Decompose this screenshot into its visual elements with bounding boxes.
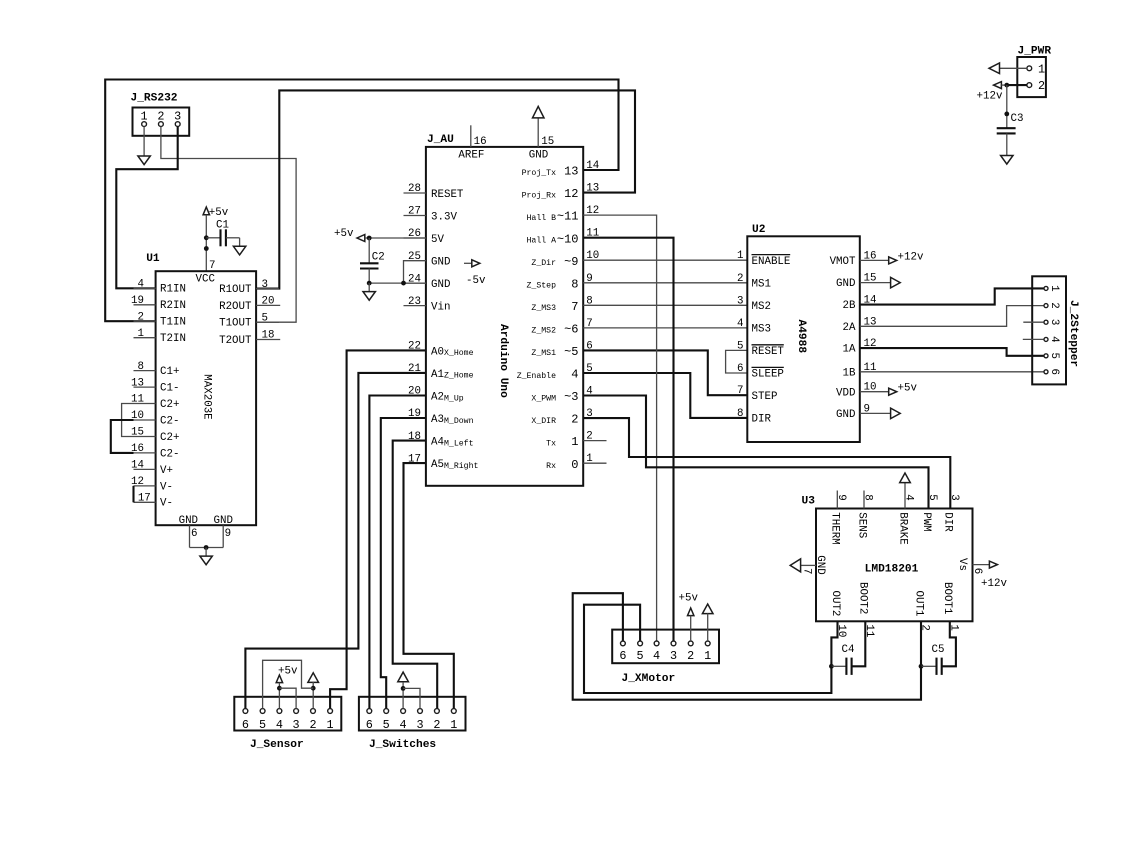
J_Sensor pin 5: [259, 709, 266, 733]
power flag +5v (U1 VCC): [203, 207, 229, 219]
svg-text:Vs: Vs: [956, 558, 968, 571]
J_AU pin 24 GND: [404, 273, 451, 291]
junction (C1 top): [204, 235, 209, 240]
svg-text:M_Down: M_Down: [444, 417, 474, 426]
wire U2 1B to J_2Stepper pin 6: [860, 371, 1044, 373]
wire U1 T1IN to Arduino pin 14 (Proj_Tx): [105, 80, 618, 322]
svg-text:GND: GND: [814, 555, 826, 574]
power flag +5v (Arduino 5V): [334, 228, 369, 242]
U2 pin 1 ENABLE: [737, 250, 790, 268]
svg-text:28: 28: [408, 183, 421, 195]
wire U2 RESET to SLEEP loop: [726, 350, 748, 373]
wire Z_MS2 to U2 MS3: [583, 327, 747, 329]
svg-text:4: 4: [903, 494, 915, 500]
U1 pin 12 V-: [131, 476, 173, 493]
power flag +12v (J_PWR pin 2): [977, 82, 1027, 103]
wire J_Switches pin 4 to pin 3: [403, 688, 420, 708]
J_Switches pin 1: [450, 709, 457, 733]
J_AU pin 1 Rx stub: [583, 462, 606, 464]
power arrow (J_PWR pin 1): [989, 63, 1027, 74]
wire U3 BOOT1 to C5: [942, 621, 956, 666]
J_Sensor pin 4: [276, 709, 283, 733]
U3 pin 9 THERM: [829, 491, 847, 545]
svg-text:12: 12: [564, 187, 578, 201]
svg-text:C2-: C2-: [160, 448, 179, 460]
wire GND24 to C2: [369, 282, 426, 284]
U1 pin 3 R1OUT: [219, 279, 279, 296]
svg-text:1: 1: [141, 110, 148, 124]
J_2Stepper pin 3 stub: [1023, 321, 1043, 323]
U1 pin 4 R1IN: [134, 279, 186, 296]
wire J_RS232 pin3 to U1 R1IN: [116, 127, 177, 289]
svg-text:Tx: Tx: [546, 439, 556, 448]
power arrow (U3 BRAKE): [900, 473, 911, 491]
svg-text:6: 6: [242, 718, 249, 732]
svg-text:MAX203E: MAX203E: [200, 374, 212, 419]
power arrow (J_Sensor pin 2): [308, 673, 319, 709]
wire A4 M_Left to J_Switches pin 2: [393, 441, 438, 709]
wire A1 Z_Home to J_Sensor pin 6: [245, 373, 426, 709]
J_AU pin 20 A2 M_Up: [404, 386, 464, 404]
junction (J_Sensor pin 2): [311, 686, 316, 691]
svg-text:V-: V-: [160, 498, 173, 510]
U1 loop C2+ pin11 to C2+ pin15: [122, 404, 134, 437]
svg-text:1: 1: [571, 435, 578, 449]
J_Sensor pin 6: [242, 709, 249, 733]
svg-text:GND: GND: [179, 515, 198, 527]
svg-text:THERM: THERM: [829, 512, 841, 544]
J_Switches pin 3: [416, 709, 423, 733]
svg-text:3: 3: [416, 718, 423, 732]
svg-text:23: 23: [408, 296, 421, 308]
power arrow (J_Switches pin 4): [398, 672, 409, 709]
J_AU pin 27 3.3V: [404, 206, 458, 224]
svg-text:U3: U3: [802, 496, 816, 508]
svg-text:C5: C5: [932, 644, 945, 656]
ground (C3): [1001, 133, 1013, 164]
J_AU pin 5 Z_Enable 4: [517, 363, 593, 382]
svg-text:~9: ~9: [564, 255, 578, 269]
svg-text:A0: A0: [431, 346, 444, 358]
svg-text:20: 20: [262, 296, 275, 308]
svg-text:VDD: VDD: [836, 387, 855, 399]
J_Switches pin 4: [400, 709, 407, 733]
J_RS232 pin 2: [157, 110, 164, 127]
svg-text:Hall A: Hall A: [527, 236, 557, 246]
capacitor C2: [360, 238, 385, 283]
U1 pin 20 R2OUT: [219, 296, 280, 313]
svg-text:SLEEP: SLEEP: [752, 369, 784, 381]
svg-text:1: 1: [450, 718, 457, 732]
svg-text:C1+: C1+: [160, 366, 179, 378]
junction (GND24 jog): [401, 281, 406, 286]
J_XMotor pin 2: [687, 641, 694, 663]
svg-text:LMD18201: LMD18201: [865, 564, 919, 576]
U3 pin 1 BOOT1: [941, 582, 959, 631]
svg-text:14: 14: [586, 160, 599, 172]
J_XMotor pin 4: [653, 641, 660, 663]
svg-text:BOOT2: BOOT2: [857, 582, 869, 614]
wire Z_MS3 to U2 MS2: [583, 304, 747, 306]
wire A0 X_Home to J_Sensor pin 1: [330, 350, 426, 708]
junction (C2 top): [367, 236, 372, 241]
svg-text:~3: ~3: [564, 390, 578, 404]
svg-text:Z_MS1: Z_MS1: [531, 349, 556, 358]
svg-text:5: 5: [926, 494, 938, 500]
svg-text:16: 16: [474, 136, 487, 148]
svg-text:2: 2: [157, 110, 164, 124]
svg-text:+5v: +5v: [679, 593, 699, 605]
svg-text:19: 19: [131, 295, 144, 307]
U3 pin 11 BOOT2: [857, 582, 875, 637]
J_AU pin 28 RESET: [404, 183, 464, 201]
svg-text:3: 3: [293, 718, 300, 732]
J_AU pin 9 Z_Step 8: [527, 273, 593, 292]
svg-text:4: 4: [737, 318, 743, 330]
svg-text:5: 5: [737, 340, 743, 352]
wire Z_MS1 to U2 STEP: [583, 350, 747, 395]
U1 pin 11 C2+: [131, 394, 179, 411]
U2 pin 10 VDD: [836, 382, 876, 400]
svg-text:PWM: PWM: [920, 512, 932, 531]
U2 pin 3 MS2: [737, 295, 771, 313]
J_Sensor pin 3: [293, 709, 300, 733]
svg-text:A4: A4: [431, 437, 444, 449]
svg-text:R1OUT: R1OUT: [219, 284, 252, 296]
U1 pin 7 VCC stub: [209, 260, 215, 272]
connector J_PWR body: [1017, 46, 1051, 98]
svg-text:M_Right: M_Right: [444, 461, 478, 471]
svg-text:14: 14: [131, 460, 144, 472]
svg-text:27: 27: [408, 206, 421, 218]
wire U3 OUT2 down: [831, 621, 837, 666]
svg-text:3: 3: [174, 110, 181, 124]
svg-text:MS1: MS1: [752, 278, 771, 290]
junction (C2 bottom): [367, 281, 372, 286]
svg-text:7: 7: [209, 260, 215, 272]
U1 pin 19 R2IN: [131, 295, 186, 312]
svg-text:GND: GND: [431, 279, 450, 291]
svg-text:C2-: C2-: [160, 415, 179, 427]
svg-text:A3: A3: [431, 414, 444, 426]
J_AU pin 12 Hall B ~11: [527, 205, 600, 224]
U1 GND pins 6 and 9: [179, 515, 233, 547]
wire A2 M_Up to J_Switches pin 6: [369, 396, 426, 709]
J_AU pin 2 Tx stub: [583, 440, 606, 442]
svg-text:4: 4: [138, 279, 144, 291]
junction (U1 ground): [204, 545, 209, 550]
svg-text:9: 9: [225, 528, 231, 540]
svg-text:U1: U1: [146, 253, 160, 265]
U1 pin 18 T2OUT: [219, 330, 280, 347]
U2 pin 8 DIR: [737, 408, 771, 426]
svg-text:2: 2: [138, 311, 144, 323]
J_2Stepper pin 6: [1044, 369, 1060, 375]
svg-text:T1OUT: T1OUT: [219, 318, 252, 330]
svg-text:8: 8: [862, 494, 874, 500]
svg-text:Z_Home: Z_Home: [444, 372, 474, 381]
U2 pin 14 2B: [843, 295, 877, 313]
svg-text:X_Home: X_Home: [444, 349, 474, 358]
svg-text:X_DIR: X_DIR: [531, 417, 556, 426]
svg-text:3: 3: [1048, 319, 1060, 325]
J_AU pin 25 GND: [404, 251, 451, 269]
U2 pin 5 RESET: [737, 340, 784, 358]
wire U3 OUT1 down: [920, 621, 922, 666]
svg-text:Z_Step: Z_Step: [527, 282, 557, 291]
svg-text:T2IN: T2IN: [160, 333, 186, 345]
J_Sensor pin 1: [327, 709, 334, 733]
svg-text:1: 1: [1038, 62, 1045, 76]
svg-text:3: 3: [262, 279, 268, 291]
svg-text:5: 5: [259, 718, 266, 732]
svg-text:+12v: +12v: [981, 578, 1007, 590]
svg-text:A4988: A4988: [795, 320, 807, 354]
U3 pin 5 PWM: [920, 494, 938, 531]
J_RS232 pin 3: [174, 110, 181, 127]
svg-text:J_AU: J_AU: [427, 134, 454, 146]
U3 pin 2 OUT1: [912, 591, 930, 631]
power arrow (U2 GND pin 9): [860, 408, 900, 419]
svg-text:X_PWM: X_PWM: [531, 394, 556, 403]
svg-text:2: 2: [433, 718, 440, 732]
svg-text:A5: A5: [431, 459, 444, 471]
svg-text:Rx: Rx: [546, 462, 556, 471]
power flag +5v (U2 VDD): [860, 383, 918, 396]
J_AU pin 8 Z_MS3 7: [531, 295, 592, 314]
wire +5v to J_Sensor pin 3: [279, 688, 296, 708]
J_PWR pin 1: [1027, 62, 1045, 76]
U1 pin 8 C1+: [134, 361, 180, 378]
svg-text:7: 7: [801, 568, 813, 574]
svg-text:OUT2: OUT2: [829, 591, 841, 617]
J_AU pin 13 Proj_Rx 12: [522, 183, 600, 202]
J_AU pin 17 A5 M_Right: [404, 453, 479, 471]
junction (J_Sensor pin 4): [277, 686, 282, 691]
U2 pin 13 2A: [843, 316, 877, 334]
wire +5v to J_AU 5V pin 26: [369, 237, 426, 239]
J_Switches pin 6: [366, 709, 373, 733]
wire C4 junction to J_XMotor pin 5: [584, 605, 831, 693]
svg-text:+5v: +5v: [278, 666, 298, 678]
U3 pin 3 DIR: [942, 494, 960, 532]
J_AU pin 18 A4 M_Left: [404, 431, 474, 449]
wire C5 junction to J_XMotor pin 6: [573, 593, 921, 700]
svg-text:5: 5: [383, 718, 390, 732]
svg-text:J_PWR: J_PWR: [1018, 46, 1052, 58]
J_2Stepper pin 1: [1044, 285, 1060, 291]
svg-text:~11: ~11: [557, 210, 579, 224]
IC U3 LMD18201 body: [802, 496, 973, 622]
J_AU pin 11 Hall A ~10: [527, 228, 600, 247]
svg-text:3: 3: [670, 649, 677, 663]
svg-text:4: 4: [653, 649, 660, 663]
U2 pin 6 SLEEP: [737, 363, 784, 381]
power flag +5v (J_XMotor pin 2): [679, 593, 699, 642]
J_AU pin 1 Rx 0: [546, 453, 593, 472]
svg-text:C3: C3: [1011, 113, 1024, 125]
ground (C1): [233, 238, 245, 255]
svg-text:2B: 2B: [843, 300, 856, 312]
J_AU pin 14 Proj_Tx 13: [522, 160, 600, 179]
svg-text:+5v: +5v: [898, 383, 918, 395]
svg-text:Z_Enable: Z_Enable: [517, 371, 556, 381]
svg-text:1: 1: [737, 250, 743, 262]
ground (J_RS232 pin 1): [138, 127, 150, 165]
svg-text:A2: A2: [431, 392, 444, 404]
svg-text:V-: V-: [160, 481, 173, 493]
svg-text:3.3V: 3.3V: [431, 212, 457, 224]
svg-text:GND: GND: [431, 257, 450, 269]
svg-text:3: 3: [948, 494, 960, 500]
svg-text:2: 2: [1038, 79, 1045, 93]
svg-text:MS2: MS2: [752, 301, 771, 313]
svg-text:M_Up: M_Up: [444, 394, 464, 403]
svg-text:Z_MS2: Z_MS2: [531, 327, 556, 336]
svg-text:2: 2: [1048, 302, 1060, 308]
svg-text:U2: U2: [752, 224, 766, 236]
svg-text:13: 13: [131, 377, 144, 389]
svg-text:13: 13: [586, 183, 599, 195]
svg-text:4: 4: [400, 718, 407, 732]
svg-text:0: 0: [571, 458, 578, 472]
wire U2 2A to J_2Stepper pin 2: [860, 306, 1044, 327]
svg-text:1: 1: [327, 718, 334, 732]
svg-text:1A: 1A: [843, 344, 856, 356]
U2 pin 12 1A: [843, 338, 877, 356]
wire +5v to U1 VCC pin 7: [205, 215, 207, 272]
wire J_PWR pin 2 to C3: [1006, 85, 1008, 128]
svg-text:1: 1: [138, 328, 144, 340]
power flag +12v (U2 VMOT): [860, 252, 924, 264]
junction (VCC stem): [204, 246, 209, 251]
J_2Stepper pin 4 stub: [1023, 338, 1044, 340]
svg-text:8: 8: [737, 408, 743, 420]
wire J_RS232 pin2 to U1 T1OUT: [161, 127, 296, 323]
junction (C4 left): [829, 664, 834, 669]
power arrow (U2 GND pin 15): [860, 277, 900, 288]
power flag -5v (inside J_AU): [464, 260, 486, 287]
svg-text:~5: ~5: [564, 345, 578, 359]
connector J_2Stepper body: [1032, 276, 1079, 384]
wire Z_Dir to U2 ENABLE: [583, 259, 747, 261]
svg-text:2A: 2A: [843, 322, 856, 334]
svg-text:6: 6: [1048, 369, 1060, 375]
svg-text:T2OUT: T2OUT: [219, 335, 252, 347]
svg-text:-5v: -5v: [466, 275, 486, 287]
U1 pin 2 T1IN: [134, 311, 186, 328]
capacitor C1: [206, 219, 239, 246]
svg-text:C1: C1: [216, 219, 229, 231]
svg-text:STEP: STEP: [752, 391, 778, 403]
J_Switches pin 5: [383, 709, 390, 733]
svg-text:9: 9: [835, 494, 847, 500]
svg-text:2: 2: [309, 718, 316, 732]
svg-text:RESET: RESET: [431, 189, 464, 201]
svg-text:J_RS232: J_RS232: [131, 93, 178, 105]
svg-text:2: 2: [687, 649, 694, 663]
wire J_Sensor pin 5 to pin 2: [263, 660, 314, 708]
svg-text:Arduino Uno: Arduino Uno: [497, 324, 509, 398]
J_AU pin 23 Vin: [404, 296, 451, 314]
svg-text:+12v: +12v: [898, 252, 924, 264]
svg-text:8: 8: [138, 361, 144, 373]
J_Switches pin 2: [433, 709, 440, 733]
svg-text:6: 6: [737, 363, 743, 375]
svg-text:18: 18: [262, 330, 275, 342]
U3 pin 7 GND with power arrow: [790, 555, 826, 574]
svg-text:DIR: DIR: [942, 512, 954, 532]
svg-text:Proj_Tx: Proj_Tx: [522, 168, 556, 178]
wire A3 M_Down to J_Switches pin 5: [381, 418, 426, 709]
svg-text:3: 3: [737, 295, 743, 307]
svg-text:GND: GND: [836, 409, 855, 421]
J_AU pin 16 AREF stub: [458, 125, 486, 161]
capacitor C4: [831, 644, 854, 675]
junction (C3 top): [1004, 112, 1009, 117]
svg-text:2: 2: [737, 273, 743, 285]
J_2Stepper pin 2: [1044, 302, 1060, 308]
J_AU pin 10 Z_Dir ~9: [531, 250, 599, 269]
U2 pin 15 GND: [836, 273, 876, 291]
svg-text:M_Left: M_Left: [444, 438, 474, 448]
svg-text:Vin: Vin: [431, 302, 450, 314]
wire U3 BOOT2 to C4: [852, 621, 866, 666]
J_AU pin 21 A1 Z_Home: [404, 363, 474, 381]
svg-text:C2+: C2+: [160, 399, 179, 411]
svg-text:R1IN: R1IN: [160, 284, 186, 296]
svg-text:6: 6: [366, 718, 373, 732]
U1 pin 16 C2-: [131, 443, 179, 460]
U2 pin 16 VMOT: [830, 250, 877, 268]
svg-text:1: 1: [1048, 285, 1060, 291]
svg-text:13: 13: [564, 165, 578, 179]
wire A5 M_Right to J_Switches pin 1: [404, 463, 454, 708]
wire U2 2B to J_2Stepper pin 1: [860, 288, 1044, 304]
J_AU pin 19 A3 M_Down: [404, 408, 474, 426]
svg-text:15: 15: [541, 136, 554, 148]
U1 pin 10 C2-: [131, 410, 179, 427]
svg-text:OUT1: OUT1: [912, 591, 924, 617]
svg-text:DIR: DIR: [752, 414, 772, 426]
svg-text:BOOT1: BOOT1: [941, 582, 953, 614]
svg-text:GND: GND: [529, 149, 548, 161]
svg-text:J_Switches: J_Switches: [369, 739, 436, 751]
svg-text:C1-: C1-: [160, 383, 179, 395]
J_2Stepper pin 5: [1044, 353, 1060, 359]
U1 pin 15 C2+: [131, 427, 179, 444]
wire Z_Step to U2 MS1: [583, 282, 747, 284]
svg-text:5: 5: [262, 312, 268, 324]
J_PWR pin 2: [1027, 79, 1045, 93]
J_XMotor pin 3: [670, 641, 677, 663]
svg-text:SENS: SENS: [855, 512, 867, 538]
J_2Stepper pin 3: [1044, 319, 1060, 325]
svg-text:BRAKE: BRAKE: [896, 512, 908, 544]
IC U1 MAX203E body: [146, 253, 256, 525]
U3 pin 6 Vs +12v flag: [956, 558, 1008, 590]
U2 pin 11 1B: [843, 362, 877, 380]
wire GND25 to GND24 (J_AU): [404, 261, 426, 284]
svg-text:2: 2: [571, 413, 578, 427]
J_AU pin 2 Tx 1: [546, 431, 593, 450]
svg-text:+5v: +5v: [334, 228, 354, 240]
svg-text:17: 17: [138, 493, 151, 505]
svg-text:1: 1: [704, 649, 711, 663]
svg-text:8: 8: [571, 277, 578, 291]
svg-text:V+: V+: [160, 465, 173, 477]
svg-text:Z_MS3: Z_MS3: [531, 304, 556, 313]
